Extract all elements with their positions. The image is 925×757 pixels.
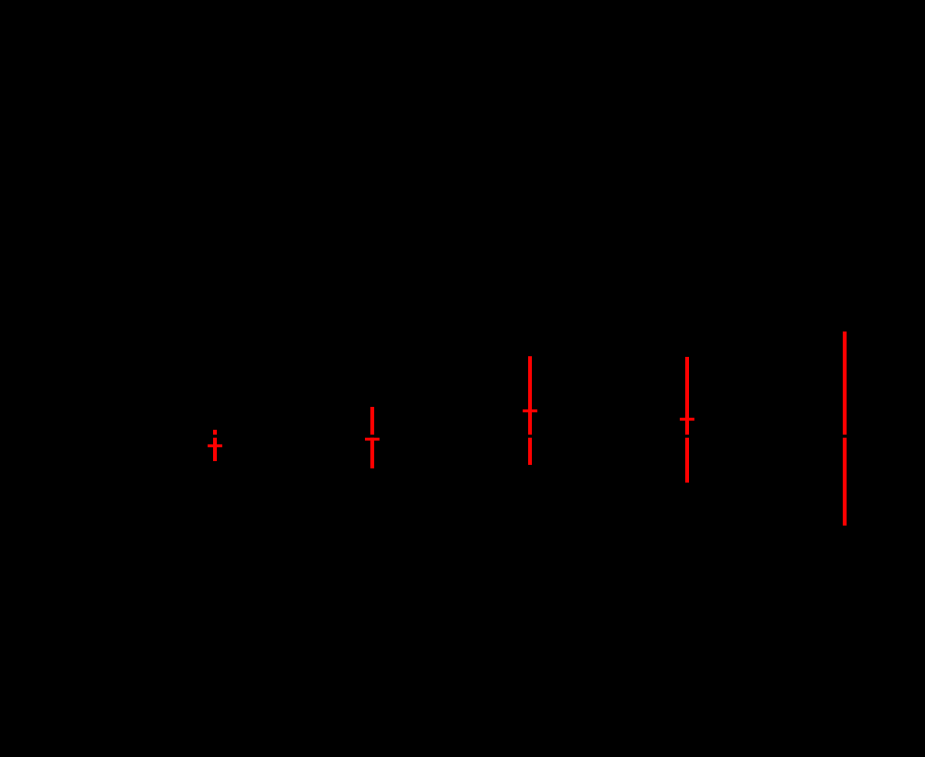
error bar 2 (x=372)	[365, 407, 380, 469]
error bar 3 (x=530)	[523, 356, 538, 465]
error bar 4 (x=687)	[680, 357, 695, 483]
error bar 1 (x=215)	[208, 430, 223, 461]
error bar 5 (x=845)	[843, 332, 847, 526]
